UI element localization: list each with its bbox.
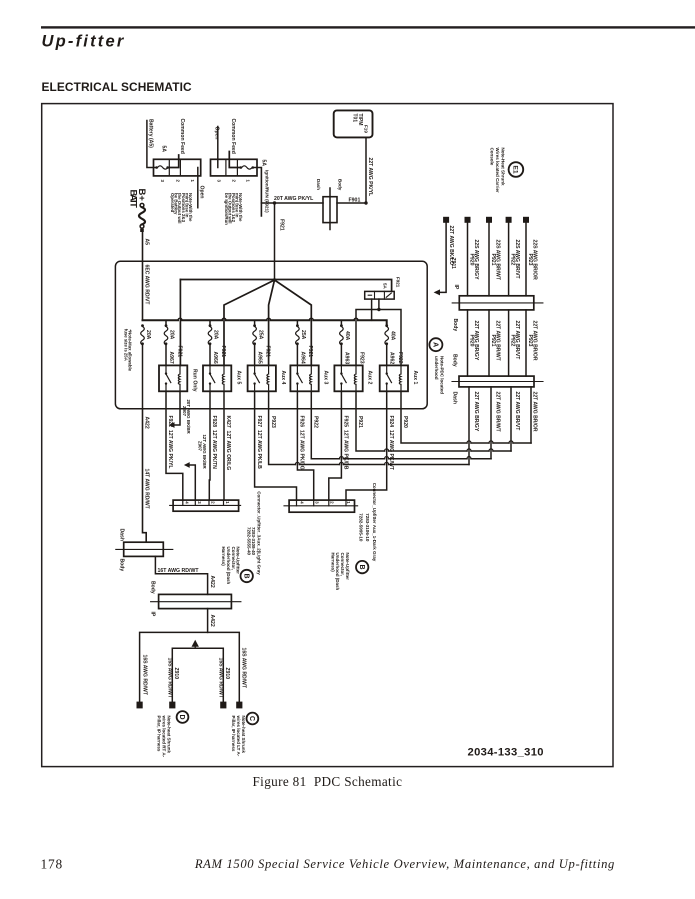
note heat shrunk carrier console — [489, 148, 505, 193]
svg-text:Body: Body — [452, 319, 458, 332]
svg-text:14T AWG RD/WT: 14T AWG RD/WT — [144, 469, 150, 510]
svg-text:25A: 25A — [300, 330, 306, 340]
relay Aux 3 — [290, 365, 328, 391]
svg-text:F926 12T AWG PK/DG: F926 12T AWG PK/DG — [299, 416, 305, 470]
node junction ignition drop — [273, 201, 276, 204]
svg-text:1: 1 — [190, 180, 195, 183]
svg-text:4: 4 — [300, 501, 305, 504]
svg-text:2: 2 — [175, 180, 180, 183]
terminal wire4 16S AWG RD/WT — [236, 702, 242, 709]
svg-text:T01: T01 — [351, 114, 357, 123]
svg-text:16T AWG RD/WT: 16T AWG RD/WT — [158, 568, 200, 574]
svg-text:F19: F19 — [364, 125, 369, 133]
fuse element in block1 position 3 — [155, 166, 169, 169]
wire outer splice run — [140, 632, 240, 701]
svg-text:A5: A5 — [143, 239, 149, 246]
wire 5A holder stub to bus — [371, 299, 373, 320]
inline connector at F901 — [316, 179, 343, 230]
svg-text:P921: P921 — [357, 416, 363, 428]
svg-text:P920: P920 — [402, 416, 408, 428]
pin numbers block2 — [216, 180, 250, 183]
svg-text:16S AWG RD/WT: 16S AWG RD/WT — [218, 658, 224, 699]
wire battery (A5) into block1 — [147, 121, 156, 168]
svg-text:3: 3 — [216, 180, 221, 183]
svg-text:C: C — [248, 716, 255, 721]
svg-text:F921: F921 — [278, 219, 284, 231]
svg-text:Figure 81 PDC Schematic: Figure 81 PDC Schematic — [253, 774, 403, 789]
svg-text:Ignition/RUN (F921): Ignition/RUN (F921) — [264, 170, 269, 213]
svg-text:B: B — [358, 565, 365, 570]
svg-text:Common Feed: Common Feed — [179, 119, 185, 154]
off-page arrow to splice — [192, 640, 199, 648]
wire block2 fuse output — [254, 168, 261, 217]
svg-text:P923: P923 — [270, 416, 276, 428]
svg-text:A966: A966 — [212, 352, 218, 364]
svg-text:Harness): Harness) — [221, 547, 226, 567]
svg-text:P922: P922 — [510, 254, 516, 266]
fuse 40A A962 — [385, 324, 395, 365]
svg-text:7283-3106-10: 7283-3106-10 — [365, 513, 370, 542]
circled B callout left — [241, 570, 253, 582]
svg-text:20T AWG BK/BR: 20T AWG BK/BR — [186, 400, 191, 435]
svg-text:F923: F923 — [358, 352, 364, 364]
circled A callout — [429, 338, 442, 351]
svg-text:K427 12T AWG OR/LG: K427 12T AWG OR/LG — [225, 416, 231, 471]
note upfitter connector right — [330, 553, 349, 591]
svg-text:22T AWG BR/GY: 22T AWG BR/GY — [473, 392, 479, 432]
svg-text:3: 3 — [197, 501, 202, 504]
wire hops on control lines — [295, 441, 513, 465]
svg-text:5A: 5A — [382, 283, 387, 290]
svg-text:Z907: Z907 — [198, 441, 203, 452]
note heat shrunk RT A-pillar — [156, 715, 171, 758]
mini-fuse block 2 (ignition feed) — [211, 159, 258, 176]
svg-text:ELECTRICAL SCHEMATIC: ELECTRICAL SCHEMATIC — [42, 80, 193, 94]
terminal wire1 16S AWG RD/WT — [137, 702, 143, 709]
svg-text:B: B — [242, 573, 249, 578]
svg-text:6EC AWG RD/VT: 6EC AWG RD/VT — [144, 265, 150, 306]
svg-text:5A: 5A — [160, 146, 166, 153]
svg-text:4: 4 — [184, 501, 189, 504]
svg-text:A422: A422 — [209, 576, 215, 588]
svg-text:Aux 5: Aux 5 — [235, 371, 241, 385]
svg-text:P922: P922 — [313, 416, 319, 428]
svg-text:Operated: Operated — [170, 193, 175, 213]
svg-text:Console: Console — [489, 148, 494, 166]
svg-text:40A: 40A — [344, 331, 350, 341]
svg-text:A967: A967 — [168, 352, 174, 364]
svg-text:Z910: Z910 — [173, 668, 179, 680]
wire P922 relay4 coil control — [311, 391, 491, 458]
svg-text:Dash: Dash — [452, 392, 458, 404]
node junction F901/TIPM — [364, 201, 367, 204]
svg-text:E1: E1 — [511, 165, 518, 174]
svg-text:Aux 4: Aux 4 — [280, 371, 286, 385]
wire 22S AWG BR/WT P921 — [488, 223, 490, 296]
PDC enclosure box — [115, 261, 427, 409]
svg-text:F928 12T AWG PK/TN: F928 12T AWG PK/TN — [211, 416, 217, 470]
wire common feed into block2 pin2 — [229, 152, 239, 168]
svg-text:A962: A962 — [389, 352, 395, 364]
svg-text:178: 178 — [41, 857, 64, 872]
mini-fuse block 1 (battery common feed) — [154, 159, 201, 176]
svg-text:IP: IP — [149, 612, 155, 617]
terminal wire P921 — [486, 217, 492, 223]
svg-text:F901: F901 — [349, 197, 361, 203]
note PDC located underhood — [434, 356, 444, 394]
svg-text:P921: P921 — [490, 254, 496, 266]
svg-text:P920: P920 — [469, 254, 475, 266]
connector upfitter 3Aux2 light gray — [170, 500, 241, 511]
relay Aux 5 — [203, 365, 241, 391]
svg-text:RAM 1500 Special Service Vehic: RAM 1500 Special Service Vehicle Overvie… — [194, 857, 615, 871]
svg-text:Open: Open — [199, 186, 205, 199]
note upfitter connector left — [221, 547, 240, 585]
svg-text:Common Feed: Common Feed — [230, 119, 236, 154]
node fan point — [273, 278, 276, 281]
fuse 40A A963 — [340, 320, 351, 365]
svg-text:25A: 25A — [257, 330, 263, 340]
battery fusible link symbol — [139, 203, 145, 232]
note block1 battery operated — [170, 193, 193, 224]
svg-text:IP: IP — [453, 285, 459, 290]
svg-text:F921: F921 — [176, 346, 182, 358]
svg-text:20A: 20A — [169, 330, 175, 340]
svg-text:F921: F921 — [220, 346, 226, 358]
svg-text:D: D — [178, 714, 185, 719]
svg-text:A422: A422 — [209, 615, 215, 627]
svg-text:Note-Heat Shrunk: Note-Heat Shrunk — [501, 148, 506, 187]
svg-text:F925 12T AWG PK/DB: F925 12T AWG PK/DB — [343, 416, 349, 470]
wire F927 relay3 output — [255, 391, 297, 500]
wire battery feed down into PDC — [142, 232, 144, 320]
svg-text:Run Only: Run Only — [191, 369, 197, 392]
svg-text:A963: A963 — [343, 352, 349, 364]
svg-text:A: A — [431, 342, 438, 347]
svg-text:F924 12T AWG PK/WT: F924 12T AWG PK/WT — [388, 416, 394, 471]
wire F928 relay2 output — [208, 391, 211, 500]
svg-text:F921: F921 — [264, 346, 270, 358]
svg-text:P923: P923 — [527, 254, 533, 266]
svg-text:Z911: Z911 — [450, 258, 456, 269]
labels 22T dash side — [473, 392, 538, 433]
fuse element in block2 position 1 — [240, 166, 255, 169]
schematic frame — [42, 104, 613, 767]
svg-text:Wires located Carrier: Wires located Carrier — [495, 148, 500, 193]
TIPM module T01 — [334, 110, 373, 137]
inline connector IP/body bundle — [452, 296, 543, 332]
wire F926 relay4 output — [297, 391, 313, 500]
fuse 20A main A422 — [141, 324, 152, 345]
wire coil feed Aux2/Aux1 — [356, 310, 401, 366]
wire P923 relay3 coil control — [269, 391, 469, 464]
header rule — [41, 26, 695, 28]
wire A422 to splice — [207, 609, 209, 633]
wire F924 relay6 output — [346, 391, 387, 500]
svg-text:20A: 20A — [145, 330, 151, 340]
labels 22T body side — [469, 321, 538, 362]
circled B callout right — [356, 561, 368, 573]
circled C callout — [247, 713, 259, 725]
svg-text:Dash: Dash — [316, 179, 321, 190]
svg-text:Open: Open — [213, 127, 219, 140]
terminal wire P923 — [523, 217, 529, 223]
svg-text:Aux 3: Aux 3 — [323, 371, 329, 385]
svg-text:Body: Body — [337, 179, 342, 191]
svg-text:20A: 20A — [213, 330, 219, 340]
terminal wire Z911 — [443, 217, 449, 223]
svg-text:7282-5995-10: 7282-5995-10 — [359, 513, 364, 542]
svg-text:P923: P923 — [527, 335, 533, 347]
svg-text:2034-133_310: 2034-133_310 — [468, 747, 544, 759]
wire P921 relay5 coil control — [356, 391, 511, 451]
wires bundle to control lines — [469, 387, 531, 465]
svg-text:Body: Body — [118, 559, 124, 572]
svg-text:F927 12T AWG PK/LB: F927 12T AWG PK/LB — [256, 416, 262, 470]
svg-text:3: 3 — [160, 180, 165, 183]
terminal wire P920 — [465, 217, 471, 223]
svg-text:20T AWG PK/YL: 20T AWG PK/YL — [274, 196, 314, 202]
wire Z911 22T AWG BK/LO into PDC — [434, 223, 447, 296]
relay Aux 4 — [248, 365, 286, 391]
wire 20T AWG PK/YL — [261, 202, 323, 204]
terminal wire3 Z910 — [220, 702, 226, 709]
wire hops on bus — [178, 318, 358, 320]
svg-text:Aux 2: Aux 2 — [367, 371, 373, 385]
svg-text:Battery (A5): Battery (A5) — [147, 119, 153, 148]
wire open into block2 pin3 — [217, 127, 219, 168]
svg-text:22T AWG BR/OR: 22T AWG BR/OR — [531, 392, 537, 432]
ground Z907 stub at connector pin 3 — [184, 435, 207, 501]
note heat shrunk LT A-pillar — [231, 715, 246, 757]
svg-text:A965: A965 — [257, 352, 263, 364]
wire A422 through PDC — [142, 344, 144, 409]
circled E1 callout — [509, 162, 524, 177]
svg-text:A964: A964 — [299, 352, 305, 364]
wire A422 feed down left side — [143, 409, 147, 542]
wire K427 relay2 coil output — [223, 391, 225, 500]
wire fan-out to relay coil feeds — [180, 280, 391, 366]
svg-text:Aux 1: Aux 1 — [412, 371, 418, 385]
svg-text:Z907: Z907 — [182, 406, 187, 417]
terminal wire2 Z910 — [169, 702, 175, 709]
svg-text:fuse size is 25A: fuse size is 25A — [123, 329, 128, 361]
relay Run Only — [159, 365, 197, 391]
svg-text:Body: Body — [452, 354, 458, 367]
svg-text:40A: 40A — [389, 331, 395, 341]
svg-text:Harness): Harness) — [330, 553, 335, 573]
svg-text:1: 1 — [346, 501, 351, 504]
wire 22S AWG BR/VT P922 — [508, 223, 510, 296]
svg-text:Connector_Upfitter Aux_1-Dark: Connector_Upfitter Aux_1-Dark Gray — [372, 483, 377, 562]
wire battery bus — [143, 320, 387, 325]
labels F921 coil feeds — [176, 346, 403, 364]
svg-text:P922: P922 — [510, 335, 516, 347]
svg-text:Body: Body — [149, 581, 155, 594]
connector upfitter Aux1 dark gray — [284, 500, 358, 512]
svg-text:be Ignition/Run: be Ignition/Run — [224, 193, 229, 225]
note block2 ignition run — [224, 193, 243, 225]
svg-text:16S AWG RD/WT: 16S AWG RD/WT — [241, 648, 247, 689]
svg-text:Pillar, IP harness: Pillar, IP harness — [231, 716, 236, 752]
pin numbers block1 — [160, 180, 195, 183]
relay Aux 2 — [334, 365, 372, 391]
svg-text:16S AWG RD/WT: 16S AWG RD/WT — [141, 655, 147, 696]
fuse 20A A966 — [208, 320, 219, 365]
svg-text:22T AWG BR/WT: 22T AWG BR/WT — [494, 392, 500, 433]
svg-text:3: 3 — [315, 501, 320, 504]
svg-text:1: 1 — [245, 180, 250, 183]
wire F925 relay5 output — [329, 391, 342, 500]
svg-text:22T AWG BR/VT: 22T AWG BR/VT — [514, 392, 520, 432]
svg-text:Z910: Z910 — [224, 668, 230, 680]
svg-text:BATT: BATT — [127, 190, 138, 209]
node 5A output junction — [377, 308, 380, 311]
wire 22T AWG PK/YL from TIPM — [365, 137, 367, 203]
wire 5A fuse output — [378, 299, 380, 309]
wire F922 relay1 output — [166, 391, 183, 500]
wire inner splice run — [172, 648, 223, 701]
wire 16T AWG RD/WT — [155, 556, 207, 594]
wire 22S AWG BR/OR P923 — [525, 223, 527, 296]
inline connector body/IP A422 — [149, 581, 241, 617]
svg-text:F921: F921 — [396, 277, 401, 288]
svg-text:Up-fitter: Up-fitter — [42, 33, 126, 51]
svg-text:Dash: Dash — [118, 529, 124, 541]
svg-text:16S AWG RD/WT: 16S AWG RD/WT — [167, 658, 173, 699]
svg-text:F922: F922 — [397, 352, 403, 364]
wire 22S AWG BR/GY P920 — [467, 223, 469, 296]
fuse 25A A965 — [253, 320, 263, 365]
wires bundle between connectors — [468, 310, 527, 376]
svg-text:2: 2 — [231, 180, 236, 183]
svg-text:22T AWG PK/YL: 22T AWG PK/YL — [367, 158, 373, 197]
wire F921 ignition drop — [274, 203, 276, 280]
wire open output block1 pin1 — [197, 168, 199, 208]
relay Aux 1 — [380, 365, 418, 391]
inline connector dash/body A422 — [116, 529, 173, 572]
svg-text:Pillar, IP harness: Pillar, IP harness — [156, 716, 161, 752]
label connector 3Aux2 — [246, 491, 261, 575]
fuse holder 5A F921 — [365, 291, 395, 299]
inline connector body/dash bundle — [452, 354, 544, 404]
svg-text:A422: A422 — [144, 417, 150, 429]
circled D callout — [177, 711, 189, 723]
svg-text:P920: P920 — [469, 335, 475, 347]
label connector Aux1 — [359, 483, 378, 562]
svg-text:7282-5555-40: 7282-5555-40 — [246, 527, 251, 556]
wire F901 to junction — [337, 202, 366, 204]
wire common feed into block1 pin2 — [169, 155, 179, 168]
note max allowable fuse — [123, 329, 132, 372]
svg-text:P921: P921 — [490, 335, 496, 347]
fuse 25A A964 — [296, 320, 307, 365]
svg-text:5A: 5A — [261, 160, 267, 167]
fuse 20A A967 — [164, 320, 175, 365]
terminal wire P922 — [506, 217, 512, 223]
svg-text:1: 1 — [225, 501, 230, 504]
svg-text:2: 2 — [330, 501, 335, 504]
ground Z907 stub from relay1 coil — [169, 391, 192, 434]
svg-text:underhood: underhood — [434, 356, 439, 380]
wire P920 relay6 coil control — [401, 391, 531, 443]
svg-text:12T AWG BK/BR: 12T AWG BK/BR — [202, 435, 207, 470]
svg-text:Connector_Upfitter_3Aux_2(Ligh: Connector_Upfitter_3Aux_2(Light Gray — [257, 491, 262, 575]
svg-text:F921: F921 — [307, 346, 313, 358]
svg-text:2: 2 — [211, 501, 216, 504]
